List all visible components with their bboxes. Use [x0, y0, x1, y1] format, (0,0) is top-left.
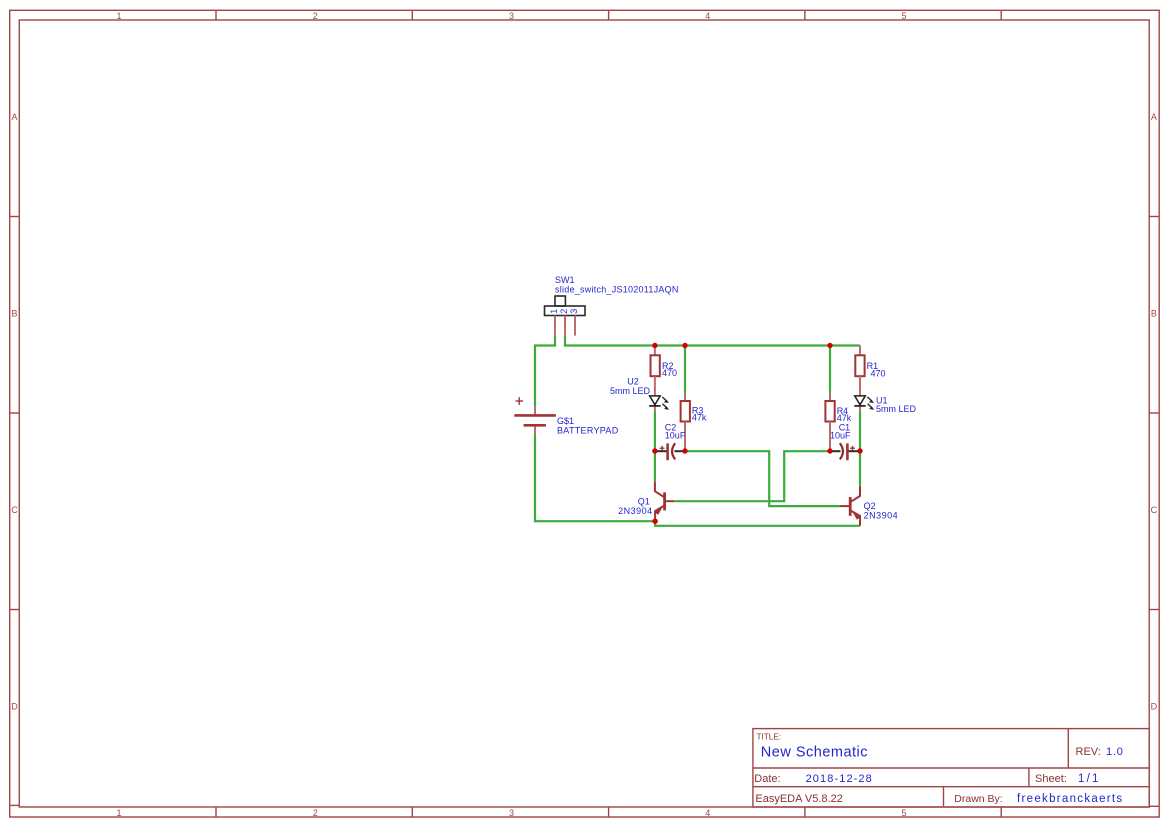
G$1 negative pin [534, 427, 536, 436]
SW1 pin 3 [574, 316, 576, 336]
wire: Q2 collector node to transistor [859, 451, 861, 486]
junction node C1 left [827, 448, 832, 453]
svg-text:470: 470 [662, 368, 677, 378]
svg-text:47k: 47k [692, 413, 707, 423]
Q1 base pin [665, 500, 675, 502]
svg-text:470: 470 [871, 369, 886, 379]
junction node C2 left [652, 448, 657, 453]
svg-text:5mm LED: 5mm LED [610, 386, 651, 396]
C2 straight plate [666, 443, 669, 460]
C1 plus sign [850, 446, 855, 451]
svg-text:1.0: 1.0 [1106, 746, 1124, 758]
wire: battery positive to switch pin1 [535, 336, 555, 407]
C2 curved plate [672, 443, 675, 459]
svg-text:Date:: Date: [754, 773, 780, 785]
transistor Q1 [618, 482, 674, 521]
svg-text:D: D [1151, 701, 1158, 711]
junction node Q1 emitter [652, 519, 657, 524]
LED U2 [610, 377, 669, 410]
C1 curved plate [840, 443, 843, 459]
wire: C2 right node to Q2 base [685, 451, 840, 506]
svg-text:2: 2 [313, 808, 318, 818]
wire: C1 left node to Q1 base [674, 451, 830, 501]
svg-text:EasyEDA V5.8.22: EasyEDA V5.8.22 [755, 793, 842, 805]
svg-text:3: 3 [509, 808, 514, 818]
Q2 base bar [849, 497, 852, 516]
svg-text:Sheet:: Sheet: [1035, 773, 1067, 785]
resistor R2 [651, 346, 678, 396]
svg-text:3: 3 [509, 11, 514, 21]
svg-text:3: 3 [569, 309, 579, 314]
junction node on rail at R3 [682, 343, 687, 348]
G$1 positive pin [534, 407, 536, 415]
junction node C1 right [857, 448, 862, 453]
svg-text:New Schematic: New Schematic [761, 744, 868, 760]
wire: R3 top to rail [684, 346, 686, 393]
wire: U2 cathode to node [654, 412, 656, 451]
resistor R1 [855, 346, 885, 396]
svg-text:U2: U2 [627, 377, 639, 387]
wire: C1 link black wire [830, 450, 841, 452]
resistor R4 [825, 393, 851, 451]
svg-text:47k: 47k [837, 413, 852, 423]
C1 straight plate [846, 443, 849, 460]
svg-text:B: B [11, 308, 17, 318]
junction node C2 right [682, 448, 687, 453]
Q2 base pin [840, 505, 850, 507]
wire: battery negative to ground rail [535, 435, 655, 521]
svg-text:1/1: 1/1 [1078, 773, 1101, 785]
G$1 short plate [524, 424, 546, 427]
Q1 emitter pin with arrow [655, 505, 665, 521]
C2 plus sign [660, 446, 665, 451]
Q2 emitter pin with arrow [850, 510, 860, 526]
capacitor C2 [660, 423, 686, 461]
title block [753, 729, 1149, 807]
wire: R4 top to rail [829, 346, 831, 393]
svg-text:B: B [1151, 308, 1157, 318]
svg-text:G$1: G$1 [557, 416, 574, 426]
resistor R3 [681, 393, 707, 451]
svg-text:REV:: REV: [1076, 746, 1101, 758]
svg-text:C: C [11, 505, 18, 515]
Q1 collector pin [655, 482, 665, 498]
svg-text:1: 1 [116, 11, 121, 21]
svg-text:4: 4 [705, 11, 710, 21]
svg-text:BATTERYPAD: BATTERYPAD [557, 426, 619, 436]
G$1 long plate [514, 414, 556, 417]
junction node on rail at R2 [652, 343, 657, 348]
U2 emission arrows [662, 397, 669, 410]
svg-text:2N3904: 2N3904 [864, 510, 899, 520]
U1 emission arrows [867, 397, 874, 410]
svg-text:10uF: 10uF [665, 431, 686, 441]
svg-text:1: 1 [549, 309, 559, 314]
svg-text:C: C [1151, 505, 1158, 515]
svg-text:TITLE:: TITLE: [757, 733, 782, 742]
svg-text:A: A [1151, 112, 1157, 122]
switch SW1 [545, 296, 586, 316]
SW1 pin 1 [554, 316, 556, 336]
Q2 collector pin [850, 486, 860, 502]
svg-text:A: A [11, 112, 17, 122]
svg-text:4: 4 [705, 808, 710, 818]
svg-text:5: 5 [901, 11, 906, 21]
wire: switch pin2 to VCC top rail [565, 336, 860, 346]
G$1 plus sign [516, 397, 524, 405]
svg-text:slide_switch_JS102011JAQN: slide_switch_JS102011JAQN [555, 285, 679, 295]
svg-text:2: 2 [313, 11, 318, 21]
svg-text:SW1: SW1 [555, 275, 575, 285]
svg-text:freekbranckaerts: freekbranckaerts [1017, 793, 1123, 805]
LED U1 [854, 396, 916, 415]
junction node on rail at R4 [827, 343, 832, 348]
svg-text:2N3904: 2N3904 [618, 506, 653, 516]
svg-text:2018-12-28: 2018-12-28 [806, 773, 873, 785]
svg-text:10uF: 10uF [830, 431, 851, 441]
wire: C2 link black wire [655, 450, 667, 452]
wire: U1 cathode to node [859, 412, 861, 451]
svg-text:2: 2 [559, 309, 569, 314]
wire: Q1 collector node to transistor [654, 451, 656, 482]
capacitor C1 [830, 423, 855, 461]
svg-text:5mm LED: 5mm LED [876, 404, 917, 414]
svg-text:D: D [11, 701, 18, 711]
SW1 pin 2 [564, 316, 566, 336]
svg-text:5: 5 [901, 808, 906, 818]
svg-text:1: 1 [116, 808, 121, 818]
Q1 base bar [663, 492, 666, 510]
svg-text:Drawn By:: Drawn By: [954, 793, 1002, 805]
wire: emitter bottom rail Q1 to Q2 [655, 521, 860, 526]
battery G$1 [514, 397, 618, 435]
transistor Q2 [840, 486, 898, 526]
